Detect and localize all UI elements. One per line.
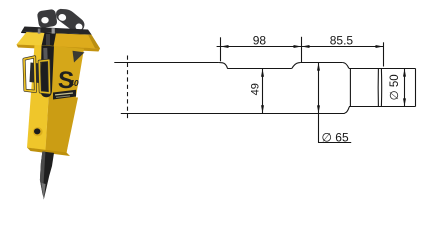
dim line 49 vertical [262,69,264,114]
dim line 85.5 [302,46,384,48]
dia65 underline [318,142,351,144]
cap far right dark edge [88,35,100,49]
wire top shank line [114,62,219,64]
bracket top plate [22,27,92,35]
wire right end vertical [415,69,417,107]
wire groove left chamfer [219,63,228,69]
wire shank50 top line [349,68,416,70]
body bottom strip [27,148,70,157]
bracket left ear [37,9,58,29]
svg-text:85.5: 85.5 [330,34,354,48]
extension line 98 left [220,37,222,61]
extension line middle [301,37,303,62]
dim line 98 [217,46,302,48]
arrow 85.5 right [376,45,384,48]
arrow 98 right [294,45,302,48]
wire top line groove to collar [301,62,343,64]
arrow dia65 top [317,63,320,71]
recess slot [40,46,54,98]
arrow 98 left [221,45,229,48]
cap bottom lip [17,45,101,52]
extension line 85.5 right [383,42,385,66]
dark wedge under cap right [73,51,85,63]
wire groove bottom [227,68,292,70]
bracket right ear [56,9,84,32]
body front face [27,45,52,151]
wire collar bottom chamfer [345,107,350,113]
svg-text:40: 40 [68,78,79,88]
wire collar end vertical edge [349,69,351,107]
arrow dia50 bottom [403,98,406,106]
dim line dia50 vertical [404,69,406,107]
wire bottom shank line [121,113,345,115]
handle right rail loop [39,60,49,93]
black band [53,90,76,100]
body side face [46,46,85,153]
dim line dia65 vertical + leader [318,63,320,143]
cap slot opening [42,33,57,47]
handle mount plate [30,63,41,84]
arrow dia50 top [403,69,406,77]
arrow 85.5 left [302,45,310,48]
cap right face [41,33,100,49]
chisel [40,152,54,200]
arrow dia65 bottom [317,105,320,113]
wire shank50 bottom line [349,106,416,108]
svg-text:49: 49 [250,83,262,95]
arrow 49 bottom [261,105,264,113]
wire collar top chamfer [343,63,349,69]
arrow 49 top [261,69,264,77]
ring chamfer ellipse on shank50 [377,69,379,107]
break dashed line [127,56,129,121]
body side gradient lower [46,96,79,153]
svg-text:98: 98 [253,34,267,48]
wire groove right chamfer [292,63,301,69]
cap front face [17,32,46,47]
svg-text:∅ 50: ∅ 50 [389,74,401,100]
handle left rail loop [24,57,36,92]
svg-text:∅ 65: ∅ 65 [322,130,349,144]
side port boss [33,127,43,136]
